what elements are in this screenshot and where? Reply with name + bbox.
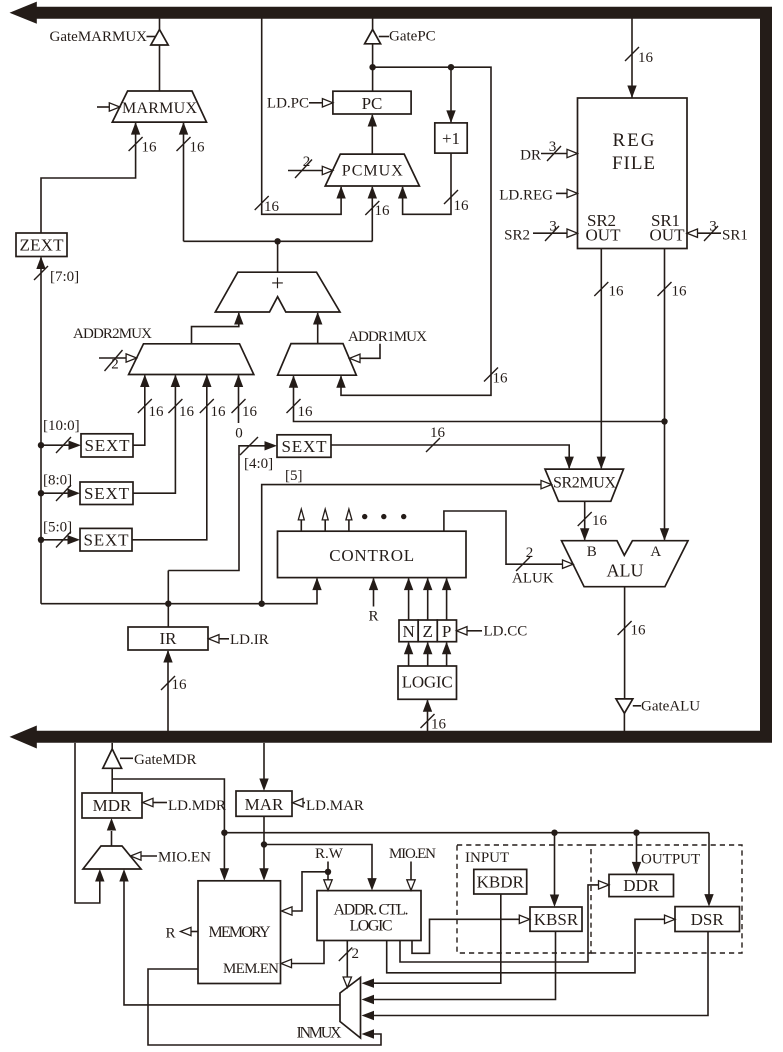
wire SEXT8:0 output to ADDR2MUX input2	[133, 376, 175, 494]
wire Z to CONTROL	[427, 579, 429, 620]
svg-text:MEM.EN: MEM.EN	[223, 961, 279, 977]
wire GateALU label dash	[633, 705, 641, 707]
wire ALU output to GateALU	[624, 587, 626, 699]
OUTPUT dashed box	[591, 845, 742, 953]
wire MARMUX output to GateMARMUX	[159, 45, 161, 92]
wire IR[5] to SR2MUX select	[262, 485, 541, 604]
wire GateMDR to MDR top	[111, 768, 113, 793]
wire SEXT5:0 input stub	[41, 539, 70, 541]
slash ALU out 16	[618, 621, 632, 635]
wire DR stub	[541, 153, 567, 155]
svg-text:16: 16	[264, 199, 280, 215]
slash ALUK 2	[516, 557, 530, 571]
wire CONTROL top stub 1	[300, 520, 302, 532]
wire KBSR select from ADDR CTL	[412, 919, 519, 953]
wire PC output to incrementer	[450, 67, 452, 122]
svg-text:16: 16	[631, 623, 647, 639]
memory MEMORY	[198, 881, 281, 984]
addr control ADDR CTL LOGIC	[317, 891, 421, 941]
wire IR[7:0] feed to ZEXT	[40, 258, 42, 604]
svg-text:GateMARMUX: GateMARMUX	[50, 29, 148, 45]
wire ADDR1MUX output to adder right input	[317, 313, 319, 344]
condition code register Z	[418, 620, 437, 642]
slash LOGIC in 16	[421, 714, 435, 728]
svg-text:GatePC: GatePC	[389, 29, 436, 45]
wire MIO.EN left stub	[141, 855, 158, 857]
svg-text:PCMUX: PCMUX	[342, 163, 403, 180]
svg-text:LD.MAR: LD.MAR	[306, 798, 364, 814]
svg-text:MIO.EN: MIO.EN	[389, 846, 436, 862]
wire bus to IR	[167, 651, 169, 731]
wire N to CONTROL	[408, 579, 410, 620]
wire GatePC stem to bus	[372, 19, 374, 30]
slash SEXT4 in 4:0	[240, 437, 258, 455]
slash ADDR2MUX in2 16	[168, 399, 182, 413]
svg-text:DSR: DSR	[691, 910, 725, 929]
svg-text:16: 16	[211, 404, 227, 420]
svg-text:[4:0]: [4:0]	[244, 456, 273, 472]
svg-text:16: 16	[454, 198, 470, 214]
slash SR1 3	[704, 226, 718, 241]
wire DSR select from ADDR CTL	[387, 919, 665, 973]
svg-text:[5:0]: [5:0]	[43, 520, 72, 536]
wire horizontal adder output distribution	[184, 240, 373, 242]
svg-text:ZEXT: ZEXT	[20, 236, 65, 255]
svg-text:16: 16	[179, 404, 195, 420]
arrowheads solid left (into INMUX)	[362, 979, 375, 988]
svg-text:SEXT: SEXT	[84, 484, 130, 503]
wire KBDR output to INMUX input1	[373, 894, 501, 983]
bus left arrowhead bottom	[10, 726, 37, 749]
svg-text:REG: REG	[613, 130, 655, 151]
wire SR2 stub	[533, 232, 567, 234]
sign-extend SEXT 4:0	[277, 435, 331, 458]
slash incrementer out 16	[444, 190, 458, 204]
wire GateMDR stem to bus	[111, 743, 113, 749]
condition code register P	[437, 620, 456, 642]
wire ADDR1MUX select stub	[360, 344, 380, 359]
display data register DDR	[609, 874, 674, 896]
svg-text:16: 16	[609, 284, 625, 300]
svg-text:PC: PC	[362, 94, 383, 113]
register MDR	[82, 793, 142, 818]
wire DSR output to INMUX input3	[373, 932, 708, 1016]
svg-text:MAR: MAR	[245, 795, 284, 814]
svg-text:IR: IR	[160, 629, 178, 648]
svg-text:SR2: SR2	[504, 228, 530, 244]
svg-text:16: 16	[638, 50, 654, 66]
svg-text:DR: DR	[520, 148, 541, 164]
wire INMUX select from ADDR CTL	[346, 941, 348, 978]
wire PCMUX select stub	[288, 170, 323, 172]
wire feed to DDR	[636, 833, 638, 863]
svg-text:2: 2	[111, 357, 119, 373]
wire bus to REG FILE input	[631, 19, 633, 98]
wire bus to MAR	[263, 743, 265, 779]
register file REG FILE	[578, 98, 688, 249]
alu ALU	[562, 541, 689, 587]
wire adder/MARMUX right input	[183, 123, 185, 241]
wire CONTROL top stub 2	[324, 520, 326, 532]
wire feed to DSR	[708, 833, 710, 896]
svg-text:16: 16	[431, 717, 447, 733]
slash SEXT3 in	[56, 532, 71, 548]
sign-extend SEXT 8:0	[80, 482, 133, 505]
svg-text:2: 2	[303, 154, 311, 170]
svg-text:0: 0	[235, 426, 243, 442]
wire MEMORY R output stub	[191, 931, 198, 933]
svg-text:16: 16	[375, 203, 391, 219]
register IR	[128, 627, 208, 650]
wire bus to MDR input mux left	[75, 743, 100, 903]
mux SR2MUX	[545, 469, 624, 501]
svg-text:SEXT: SEXT	[85, 436, 131, 455]
tri-state buffer GateMDR	[103, 749, 122, 768]
svg-text:GateMDR: GateMDR	[134, 752, 197, 768]
bus (system bus, C-shaped thick bar)	[37, 13, 767, 737]
svg-text:N: N	[402, 622, 414, 641]
wire ADDR2MUX output to adder left input	[192, 313, 239, 344]
svg-text:INPUT: INPUT	[465, 850, 509, 866]
svg-text:ADDR. CTL.: ADDR. CTL.	[334, 902, 409, 919]
svg-text:R: R	[165, 926, 175, 942]
wire LOGIC to Z	[427, 643, 429, 666]
INPUT dashed box	[457, 845, 591, 953]
mux PCMUX	[325, 154, 419, 186]
slash ADDR2MUX in1 16	[138, 399, 152, 413]
wire R stub to CONTROL	[373, 579, 375, 607]
wire incrementer output to PCMUX right input	[403, 153, 451, 214]
wire LD.MDR stub	[153, 802, 168, 804]
slash MARMUX right input 16	[177, 137, 191, 151]
wire P to CONTROL	[446, 579, 448, 620]
svg-text:MEMORY: MEMORY	[209, 924, 271, 941]
slash ADDR2MUX select 2	[105, 350, 123, 371]
slash bus drop 16	[255, 196, 269, 210]
wire bus drop to PCMUX left input	[262, 19, 341, 215]
wire LD.MAR stub	[302, 802, 305, 804]
svg-text:ALU: ALU	[607, 561, 644, 581]
wire GateMARMUX stem to bus	[159, 19, 161, 30]
slash MARMUX left input 16	[129, 137, 143, 151]
svg-text:ADDR1MUX: ADDR1MUX	[348, 329, 427, 345]
wire SR1OUT branch to ADDR1MUX left input	[294, 376, 665, 421]
wire LD.IR stub	[219, 638, 229, 640]
svg-text:[5]: [5]	[285, 468, 303, 484]
wire constant 0 to ADDR2MUX input4	[238, 376, 240, 424]
wire MDR line to IO registers horizontal	[224, 832, 709, 834]
svg-text:16: 16	[190, 140, 206, 156]
wire SEXT8:0 input stub	[41, 492, 70, 494]
wire SR2OUT to SR2MUX right input	[600, 249, 602, 469]
svg-text:INMUX: INMUX	[297, 1025, 342, 1042]
svg-text:LOGIC: LOGIC	[402, 673, 453, 692]
svg-text:MIO.EN: MIO.EN	[158, 850, 211, 866]
slash ADDR2MUX in3 16	[200, 399, 214, 413]
wire LD.REG stub	[556, 192, 567, 194]
keyboard data register KBDR	[474, 869, 527, 894]
slash SR1OUT 16	[658, 282, 672, 296]
wire ALUK from CONTROL to ALU	[444, 511, 563, 564]
wire SEXT10:0 output to ADDR2MUX input1	[133, 376, 145, 446]
svg-text:FILE: FILE	[612, 153, 655, 174]
svg-text:+: +	[271, 271, 284, 296]
svg-text:GateALU: GateALU	[641, 699, 700, 715]
bus left arrowhead top	[10, 2, 37, 24]
svg-text:3: 3	[709, 219, 717, 235]
wire GateALU stem to bus	[623, 713, 625, 731]
register MAR	[236, 791, 292, 816]
wire IR top to junction	[167, 571, 169, 628]
svg-text:OUT: OUT	[650, 226, 686, 245]
slash INMUX select 2	[339, 948, 353, 962]
slash SR2OUT 16	[594, 282, 608, 296]
svg-text:P: P	[442, 622, 451, 641]
wire PC output to ADDR1MUX feed	[341, 67, 491, 395]
wire R.W stub and branches	[327, 862, 329, 880]
svg-text:[7:0]: [7:0]	[50, 269, 79, 285]
slash IR in 16	[161, 676, 175, 690]
slash ZEXT in 7:0	[34, 266, 48, 280]
svg-text:OUT: OUT	[586, 226, 622, 245]
svg-text:R.W: R.W	[315, 846, 344, 862]
arrowheads solid down	[627, 86, 636, 99]
wire INMUX output to MDR input mux right	[124, 882, 340, 1005]
svg-text:16: 16	[430, 425, 446, 441]
svg-text:Z: Z	[423, 622, 433, 641]
svg-text:B: B	[587, 544, 597, 560]
svg-text:LD.IR: LD.IR	[230, 632, 269, 648]
wire LOGIC to N	[408, 643, 410, 666]
wire LD.CC stub	[467, 630, 482, 632]
slash SEXT2 in	[56, 485, 71, 501]
wire SEXT10:0 input stub	[41, 444, 71, 446]
wire SEXT4:0 output to SR2MUX	[331, 445, 569, 468]
svg-text:LOGIC: LOGIC	[350, 918, 393, 935]
adder	[215, 272, 340, 312]
svg-text:MARMUX: MARMUX	[122, 100, 197, 117]
slash PC-ADDR1MUX 16	[484, 368, 498, 382]
wire ZEXT output to MARMUX left input	[41, 123, 136, 233]
arrowheads solid right (into SEXT boxes)	[69, 441, 82, 450]
sign-extend SEXT 5:0	[80, 528, 132, 551]
register PC	[333, 91, 411, 114]
tri-state buffer GatePC	[365, 29, 381, 43]
svg-text:16: 16	[242, 404, 258, 420]
slash SEXT4:0 out 16	[426, 438, 440, 452]
logic block LOGIC	[398, 666, 457, 699]
wire GateMARMUX label dash	[147, 36, 156, 38]
open arrowheads small up (CONTROL outputs)	[298, 509, 304, 520]
junction dots	[369, 64, 375, 70]
display status register DSR	[675, 907, 740, 932]
svg-text:+1: +1	[442, 129, 460, 148]
open arrowheads pointing right (select/control inputs)	[109, 103, 120, 111]
svg-text:KBSR: KBSR	[534, 910, 579, 929]
svg-text:KBDR: KBDR	[477, 873, 525, 892]
wire CONTROL top stub 3	[348, 520, 350, 532]
wire MARMUX select stub	[97, 106, 111, 108]
slash ADDR1MUX in 16	[287, 399, 301, 413]
wire feed to KBSR	[554, 833, 556, 896]
wire SR1OUT to ALU input A	[664, 249, 666, 540]
sign-extend SEXT 10:0	[81, 434, 133, 457]
svg-text:SR2MUX: SR2MUX	[553, 475, 616, 492]
svg-text:LD.REG: LD.REG	[499, 188, 553, 204]
wire LOGIC to P	[446, 643, 448, 666]
mux MARMUX	[112, 91, 206, 122]
slash SR2 3	[545, 226, 559, 241]
wire R.W to MEMORY	[292, 872, 328, 911]
svg-text:LD.MDR: LD.MDR	[168, 798, 226, 814]
svg-text:ALUK: ALUK	[512, 571, 554, 587]
wire MDR output branch to MEMORY and IO registers	[112, 779, 224, 869]
wire KBSR output to INMUX input2	[373, 931, 556, 999]
control unit CONTROL	[278, 531, 467, 577]
mux INMUX	[340, 978, 361, 1039]
svg-text:3: 3	[549, 139, 557, 155]
wire bus to LOGIC	[427, 700, 429, 731]
svg-text:LD.PC: LD.PC	[267, 96, 309, 112]
svg-text:DDR: DDR	[623, 876, 660, 895]
wire MEMORY output to INMUX input4	[148, 969, 381, 1045]
wire MIO.EN right to ADDR CTL LOGIC	[410, 862, 412, 880]
wire adder output to PCMUX middle input	[371, 187, 373, 241]
condition code register N	[399, 620, 418, 642]
svg-text:2: 2	[526, 545, 534, 561]
wire SR2MUX output to ALU input B	[584, 501, 586, 540]
svg-text:16: 16	[298, 404, 314, 420]
wire DDR select from ADDR CTL	[400, 885, 599, 962]
tri-state buffer GateALU	[616, 699, 633, 713]
svg-text:SEXT: SEXT	[282, 437, 328, 456]
wire IR[4:0] feed to SEXT	[168, 446, 266, 571]
svg-text:CONTROL: CONTROL	[329, 546, 414, 565]
svg-text:16: 16	[149, 404, 165, 420]
mux ADDR1MUX	[278, 344, 357, 376]
svg-text:MDR: MDR	[93, 796, 132, 815]
svg-text:16: 16	[142, 140, 158, 156]
mux MDR input mux	[83, 846, 141, 869]
svg-text:[8:0]: [8:0]	[43, 473, 72, 489]
incrementer +1	[435, 123, 467, 153]
wire GateMDR label dash	[120, 757, 133, 759]
svg-text:OUTPUT: OUTPUT	[641, 852, 700, 868]
wire MDR input mux output to MDR	[111, 831, 113, 846]
wire SR1 stub	[698, 232, 722, 234]
zero-extend ZEXT	[16, 233, 67, 257]
wire GatePC to PC top	[372, 44, 374, 91]
wire IR output horizontal to CONTROL	[41, 579, 317, 604]
tri-state buffer GateMARMUX	[151, 30, 168, 46]
wire adder output	[277, 241, 279, 272]
keyboard status register KBSR	[530, 907, 582, 931]
wire LD.PC dash	[309, 102, 323, 104]
open arrowheads pointing left	[350, 354, 361, 362]
svg-text:ADDR2MUX: ADDR2MUX	[73, 326, 152, 342]
wire MAR to ADDR CTL LOGIC	[264, 845, 372, 880]
slash ADDR2MUX in4 16	[232, 399, 246, 413]
slash SR2MUX out 16	[578, 512, 592, 526]
svg-text:LD.CC: LD.CC	[484, 624, 528, 640]
wire PCMUX output to PC	[371, 115, 373, 154]
wire MAR output to MEMORY and ADDR CTL	[263, 816, 265, 869]
svg-text:16: 16	[592, 513, 608, 529]
svg-text:16: 16	[493, 371, 509, 387]
open arrowheads pointing down (ADDR CTL and INMUX selects)	[324, 880, 332, 891]
svg-text:R: R	[368, 609, 378, 625]
svg-text:SEXT: SEXT	[84, 531, 130, 550]
wire SEXT5:0 output to ADDR2MUX input3	[132, 376, 207, 540]
mux ADDR2MUX	[129, 344, 254, 375]
svg-text:SR1: SR1	[722, 228, 748, 244]
wire GatePC label dash	[379, 36, 389, 38]
slash PCMUX middle 16	[365, 201, 379, 215]
wire ADDR2MUX select stub	[99, 357, 126, 359]
svg-text:A: A	[650, 544, 661, 560]
slash SEXT1 in	[56, 437, 71, 453]
svg-text:16: 16	[172, 677, 188, 693]
slash REG FILE input 16	[625, 47, 639, 61]
wire MEM.EN from ADDR CTL to MEMORY	[292, 941, 324, 964]
svg-text:2: 2	[352, 946, 360, 962]
svg-text:[10:0]: [10:0]	[43, 418, 80, 434]
svg-text:16: 16	[672, 284, 688, 300]
slash DR 3	[547, 146, 561, 161]
svg-text:3: 3	[549, 219, 557, 235]
arrowheads solid up	[131, 122, 140, 135]
slash PCMUX select 2	[295, 160, 312, 179]
